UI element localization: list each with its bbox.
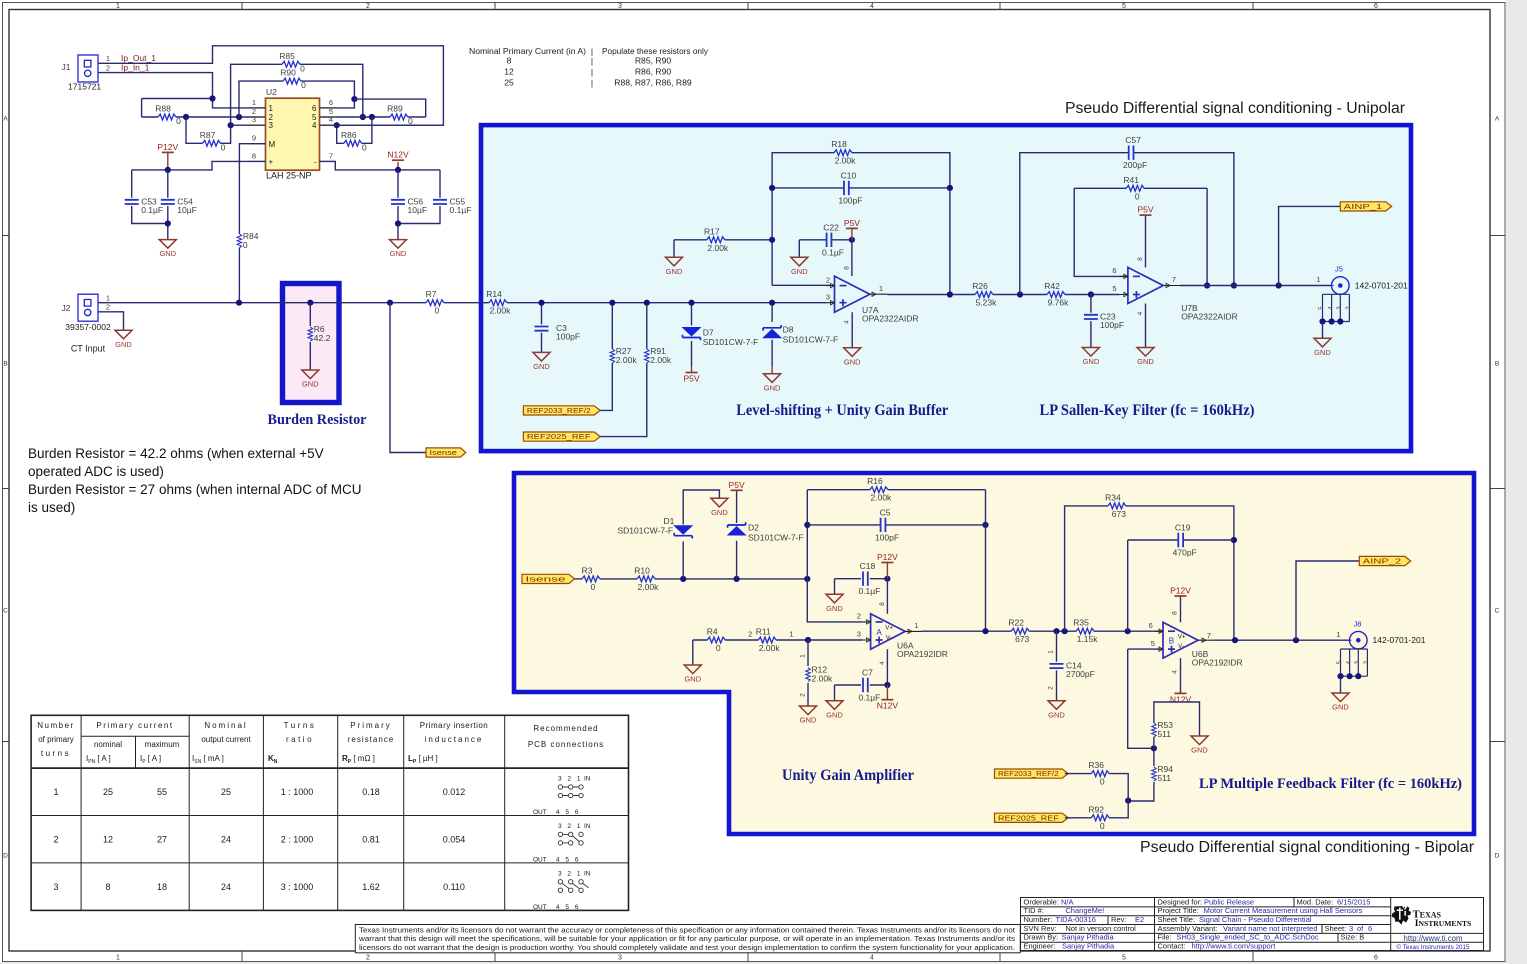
svg-text:8: 8 [879, 602, 886, 606]
capacitor C55 [433, 196, 471, 215]
svg-text:2: 2 [366, 3, 370, 10]
wire C5 row [807, 524, 985, 526]
svg-text:GND: GND [1048, 710, 1065, 719]
junction [884, 576, 890, 582]
svg-text:100pF: 100pF [1100, 320, 1124, 330]
wire net Ip_Out_1 top loop [98, 46, 443, 125]
svg-text:P12V: P12V [877, 552, 898, 562]
svg-text:R92: R92 [1088, 804, 1104, 814]
wire C22 row [799, 239, 852, 241]
svg-text:142-0701-201: 142-0701-201 [1373, 635, 1426, 645]
svg-text:J8: J8 [1353, 620, 1361, 629]
svg-text:1715721: 1715721 [68, 82, 101, 92]
wire U2 pin 6 to R89 right [320, 99, 426, 117]
svg-text:R17: R17 [704, 226, 720, 236]
svg-text:Unity Gain Amplifier: Unity Gain Amplifier [782, 767, 914, 784]
resistor R89 [387, 104, 413, 127]
svg-text:8: 8 [507, 56, 512, 66]
wire J5 shield to ground [1322, 322, 1324, 339]
svg-text:V-: V- [1178, 643, 1184, 650]
svg-text:2.00k: 2.00k [490, 306, 512, 316]
svg-text:INSTRUMENTS: INSTRUMENTS [1415, 919, 1471, 929]
wire burden leg [309, 303, 311, 370]
wire R27 to REF2033 flag [596, 303, 612, 411]
svg-text:SD101CW-7-F: SD101CW-7-F [783, 334, 839, 344]
resistor R26 [972, 281, 997, 308]
svg-text:Populate these resistors only: Populate these resistors only [602, 46, 709, 56]
svg-text:Recommended: Recommended [533, 724, 598, 733]
resistor R36 [1088, 760, 1109, 787]
svg-text:24: 24 [221, 882, 231, 892]
svg-text:B: B [1169, 637, 1174, 646]
svg-text:0.1µF: 0.1µF [858, 586, 880, 596]
svg-text:GND: GND [826, 604, 843, 613]
junction [769, 300, 775, 306]
op-amp U6A [857, 602, 948, 665]
resistor R35 [1073, 618, 1098, 645]
svg-text:J2: J2 [62, 303, 71, 313]
power P12V [1170, 586, 1191, 597]
svg-text:9: 9 [252, 134, 256, 143]
connector J2 [62, 294, 111, 353]
svg-text:2.00k: 2.00k [812, 674, 834, 684]
junction [1062, 628, 1068, 634]
net flag REF2025_REF [995, 813, 1069, 822]
svg-text:25: 25 [504, 78, 514, 88]
svg-text:7: 7 [329, 151, 333, 160]
power N12V [1170, 693, 1192, 704]
wire R34 loop [1065, 506, 1234, 641]
svg-text:OPA2192IDR: OPA2192IDR [1192, 658, 1243, 668]
svg-text:R41: R41 [1123, 175, 1139, 185]
wire R18 feedback loop [772, 153, 950, 295]
wire R86 loop [337, 117, 372, 143]
svg-text:Primary: Primary [350, 721, 392, 730]
svg-text:GND: GND [1332, 703, 1349, 712]
svg-text:Isense: Isense [526, 577, 566, 584]
svg-text:turns: turns [41, 749, 71, 758]
svg-text:3: 3 [826, 292, 830, 301]
unipolar section box [481, 125, 1411, 451]
wire R87 loop to U2 pin 3 [186, 117, 266, 143]
svg-text:10µF: 10µF [408, 205, 428, 215]
net flag REF2033_REF/2 [995, 769, 1069, 778]
svg-text:SD101CW-7-F: SD101CW-7-F [618, 525, 674, 535]
wire to AINP_2 flag [1296, 561, 1359, 640]
svg-text:6: 6 [329, 98, 333, 107]
wire R94 leg [1128, 748, 1154, 801]
svg-text:1: 1 [879, 284, 883, 293]
resistor R22 [1008, 618, 1029, 645]
svg-text:C5: C5 [880, 507, 891, 517]
net flag REF2033_REF/2 [523, 406, 600, 415]
svg-text:A: A [3, 116, 8, 123]
junction [769, 237, 775, 243]
junction [1125, 798, 1131, 804]
wire feedback right vertical [985, 490, 987, 632]
wire to U7A pin 2 [772, 284, 830, 286]
svg-text:3 2 1: 3 2 1 [558, 823, 582, 830]
svg-text:N12V: N12V [1170, 694, 1192, 704]
svg-text:2: 2 [748, 630, 752, 639]
svg-text:C: C [1495, 608, 1500, 615]
junction [209, 95, 215, 101]
svg-text:1: 1 [1336, 630, 1340, 639]
resistor R6 [308, 324, 331, 343]
svg-text:8: 8 [1137, 257, 1144, 261]
svg-text:0: 0 [1100, 821, 1105, 831]
ground [390, 240, 407, 259]
wire P5V stem [851, 228, 853, 239]
svg-text:0: 0 [1135, 191, 1140, 201]
svg-text:R18: R18 [831, 139, 847, 149]
wire D8 leg [771, 303, 773, 366]
svg-text:6: 6 [1112, 266, 1116, 275]
resistor R94 [1152, 764, 1174, 783]
capacitor C22 [822, 222, 844, 257]
wire C19 row [1128, 540, 1234, 631]
junction [395, 220, 401, 226]
connector J5 [1317, 265, 1408, 325]
svg-text:Burden Resistor: Burden Resistor [268, 412, 368, 428]
svg-text:2700pF: 2700pF [1066, 669, 1095, 679]
svg-text:1: 1 [789, 630, 793, 639]
wire to U6A pin 3 [808, 639, 863, 641]
svg-text:673: 673 [1112, 509, 1126, 519]
svg-text:D1: D1 [664, 516, 675, 526]
diode D1 [618, 516, 693, 539]
svg-text:24: 24 [221, 834, 231, 844]
svg-text:0: 0 [243, 240, 248, 250]
svg-text:is used): is used) [28, 500, 75, 515]
bipolar section box [514, 473, 1474, 834]
svg-text:OPA2192IDR: OPA2192IDR [897, 649, 948, 659]
svg-text:27: 27 [157, 834, 167, 844]
ground [533, 352, 550, 371]
svg-text:6: 6 [1374, 3, 1378, 10]
op-amp U7A [826, 266, 919, 324]
wire U6A output row [922, 630, 1163, 632]
svg-text:4: 4 [312, 121, 317, 130]
svg-text:Burden Resistor = 27 ohms (whe: Burden Resistor = 27 ohms (when internal… [28, 482, 362, 497]
svg-text:R11: R11 [756, 627, 771, 637]
svg-text:55: 55 [157, 787, 167, 797]
svg-text:0: 0 [221, 142, 226, 152]
svg-text:Primary current: Primary current [96, 721, 173, 730]
net flag Isense [522, 574, 575, 583]
svg-text:-: - [314, 158, 317, 167]
svg-text:GND: GND [666, 267, 683, 276]
svg-text:4 5 6: 4 5 6 [556, 809, 580, 816]
logo Texas Instruments [1392, 906, 1472, 951]
svg-text:3: 3 [269, 121, 274, 130]
svg-text:IN: IN [584, 776, 591, 783]
svg-text:R10: R10 [634, 565, 650, 575]
junction [1276, 282, 1282, 288]
svg-text:5: 5 [1112, 284, 1116, 293]
svg-text:Texas Instruments and/or its l: Texas Instruments and/or its licensors d… [359, 925, 1015, 934]
svg-text:C57: C57 [1125, 135, 1141, 145]
junction [395, 167, 401, 173]
svg-text:2: 2 [826, 275, 830, 284]
svg-text:GND: GND [826, 710, 843, 719]
resistor R16 [867, 476, 892, 503]
svg-text:3 2 1: 3 2 1 [558, 870, 582, 877]
wire R90 loop [239, 81, 354, 117]
resistor R85 [279, 51, 305, 74]
junction [680, 576, 686, 582]
svg-text:N12V: N12V [877, 701, 899, 711]
svg-text:P5V: P5V [729, 480, 745, 490]
wire U6A V+ supply [886, 579, 888, 614]
svg-text:8: 8 [252, 151, 256, 160]
svg-text:3: 3 [1354, 660, 1361, 664]
svg-text:|: | [591, 56, 593, 66]
resistor R41 [1123, 175, 1144, 202]
svg-text:1: 1 [116, 3, 120, 10]
resistor R84 [237, 231, 259, 250]
note populate table [469, 46, 709, 88]
svg-text:1: 1 [1047, 650, 1054, 654]
svg-text:1: 1 [116, 955, 120, 962]
svg-text:0.1µF: 0.1µF [141, 205, 163, 215]
svg-text:M: M [269, 140, 276, 149]
wire R88 row to U2 pin 2 [142, 99, 266, 118]
svg-text:0.110: 0.110 [443, 882, 465, 892]
net flag REF2025_REF [523, 432, 600, 441]
svg-text:2: 2 [1363, 660, 1370, 664]
svg-text:GND: GND [1083, 357, 1100, 366]
svg-text:4: 4 [1327, 306, 1334, 310]
wire U6A V- supply [886, 649, 888, 685]
svg-text:2.00k: 2.00k [707, 243, 729, 253]
capacitor C19 [1173, 523, 1197, 558]
svg-text:12: 12 [504, 67, 514, 77]
svg-text:R85, R90: R85, R90 [635, 56, 672, 66]
junction [183, 114, 189, 120]
svg-text:3 2 1: 3 2 1 [558, 776, 582, 783]
svg-text:V+: V+ [1178, 633, 1186, 640]
svg-text:maximum: maximum [145, 740, 180, 749]
svg-text:LP Sallen-Key Filter (fc = 160: LP Sallen-Key Filter (fc = 160kHz) [1040, 402, 1255, 419]
diode D8 [763, 325, 838, 345]
svg-text:ratio: ratio [286, 735, 314, 744]
svg-text:GND: GND [1137, 357, 1154, 366]
svg-text:resistance: resistance [348, 735, 394, 744]
capacitor C23 [1084, 311, 1124, 330]
wire D7 p5v stem [691, 366, 693, 373]
svg-text:R85: R85 [279, 51, 295, 61]
svg-text:3: 3 [618, 3, 622, 10]
svg-text:V+: V+ [885, 625, 893, 632]
svg-text:1 : 1000: 1 : 1000 [281, 787, 314, 797]
svg-text:5: 5 [1336, 660, 1343, 664]
op-amp U7B [1112, 257, 1237, 322]
wire to Isense flag [390, 303, 426, 453]
svg-text:GND: GND [302, 380, 319, 389]
wire U7B V+ supply [1145, 215, 1147, 267]
svg-text:0.18: 0.18 [362, 787, 380, 797]
svg-text:P5V: P5V [844, 218, 860, 228]
power P5V [1137, 205, 1153, 216]
resistor R3 [582, 565, 600, 592]
svg-text:OUT: OUT [533, 809, 547, 816]
svg-text:GND: GND [764, 383, 781, 392]
power N12V [877, 700, 899, 711]
ground [711, 498, 728, 517]
svg-text:4 5 6: 4 5 6 [556, 856, 580, 863]
capacitor C3 [535, 323, 581, 342]
junction [307, 300, 313, 306]
power P5V [844, 218, 860, 229]
svg-text:0.1µF: 0.1µF [450, 205, 472, 215]
wire R4 R11 row [693, 640, 808, 665]
svg-text:GND: GND [1314, 348, 1331, 357]
wire C7 row [835, 685, 888, 701]
junction [236, 114, 242, 120]
junction [538, 300, 544, 306]
svg-text:3: 3 [1336, 306, 1343, 310]
svg-text:2: 2 [857, 612, 861, 621]
wire main CT signal row [98, 302, 826, 304]
junction [805, 637, 811, 643]
svg-text:C10: C10 [841, 170, 857, 180]
junction [609, 300, 615, 306]
svg-text:GND: GND [844, 357, 861, 366]
wire U6B output to J8 [1214, 639, 1350, 641]
ground [1082, 348, 1099, 367]
svg-text:2: 2 [1047, 686, 1054, 690]
ground [1332, 693, 1349, 712]
wire U7A output row [887, 294, 1119, 296]
ground [1191, 736, 1208, 755]
svg-text:0: 0 [301, 80, 306, 90]
resistor R10 [634, 565, 659, 592]
junction [1204, 282, 1210, 288]
capacitor C54 [161, 196, 197, 215]
svg-text:0: 0 [591, 582, 596, 592]
junction [236, 300, 242, 306]
svg-text:Primary insertion: Primary insertion [420, 721, 489, 730]
wire C18 row [835, 579, 888, 595]
svg-text:100pF: 100pF [556, 332, 580, 342]
svg-text:V-: V- [886, 634, 892, 641]
svg-text:6: 6 [1149, 621, 1153, 630]
junction [1125, 628, 1131, 634]
capacitor C5 [875, 507, 899, 542]
resistor R14 [486, 289, 511, 316]
svg-text:R87: R87 [200, 130, 216, 140]
svg-text:GND: GND [791, 267, 808, 276]
table transformer options [31, 715, 628, 910]
svg-text:R89: R89 [387, 104, 403, 114]
svg-text:licensors do not warrant that: licensors do not warrant that the design… [359, 943, 1015, 952]
wire U6B V- supply [1180, 658, 1182, 693]
junction [884, 682, 890, 688]
ground [115, 330, 132, 349]
wire U7B output to J5 [1180, 285, 1332, 287]
svg-text:1: 1 [800, 654, 807, 658]
capacitor C10 [838, 170, 862, 205]
resistor R7 [426, 289, 444, 316]
wire U7B V- to ground [1145, 304, 1147, 348]
svg-text:511: 511 [1157, 729, 1171, 739]
svg-text:Burden Resistor = 42.2 ohms (w: Burden Resistor = 42.2 ohms (when extern… [28, 446, 324, 461]
svg-text:2.00k: 2.00k [616, 355, 638, 365]
diode D7 [683, 327, 759, 347]
ground [764, 374, 781, 393]
resistor R34 [1105, 492, 1126, 519]
svg-text:P5V: P5V [1137, 205, 1153, 215]
power N12V [387, 150, 409, 161]
svg-text:J5: J5 [1335, 265, 1343, 274]
svg-text:0: 0 [1100, 777, 1105, 787]
svg-text:CT Input: CT Input [71, 344, 106, 354]
svg-text:C: C [3, 608, 8, 615]
wire U2 pin 5 row [320, 116, 426, 118]
svg-text:D8: D8 [783, 325, 794, 335]
junction [849, 237, 855, 243]
junction [804, 522, 810, 528]
wire bipolar input row [575, 578, 808, 580]
svg-text:2: 2 [1345, 306, 1352, 310]
wire to AINP_1 flag [1279, 206, 1341, 285]
junction [360, 114, 366, 120]
svg-text:R16: R16 [867, 476, 883, 486]
svg-text:5.23k: 5.23k [976, 298, 998, 308]
wire U7A V- to ground [851, 312, 853, 348]
ground [1137, 348, 1154, 367]
svg-text:nominal: nominal [94, 740, 122, 749]
svg-text:1: 1 [106, 293, 110, 302]
diode D2 [728, 522, 804, 542]
wire C14 leads [1056, 631, 1058, 701]
svg-text:A: A [876, 628, 882, 637]
wire C10 row [772, 187, 950, 189]
svg-text:1: 1 [53, 787, 58, 797]
resistor R17 [704, 226, 729, 253]
junction [387, 300, 393, 306]
svg-text:C22: C22 [823, 222, 839, 232]
junction [228, 122, 234, 128]
junction [1151, 745, 1157, 751]
svg-text:4: 4 [1171, 670, 1178, 674]
resistor R87 [200, 130, 226, 153]
wire R88 top link [142, 98, 213, 100]
wire D2 leg to P5V [736, 490, 738, 579]
wire R41 loop to pin 6 [1074, 188, 1207, 285]
svg-text:4: 4 [870, 3, 874, 10]
svg-text:D2: D2 [748, 523, 759, 533]
svg-text:8: 8 [1171, 611, 1178, 615]
svg-text:1: 1 [269, 104, 274, 113]
svg-text:B: B [3, 361, 7, 368]
wire R12 leg [807, 640, 809, 706]
junction [947, 185, 953, 191]
svg-text:3: 3 [618, 955, 622, 962]
svg-text:9.76k: 9.76k [1048, 298, 1070, 308]
wire C23 leads [1090, 295, 1092, 348]
svg-text:P5V: P5V [683, 374, 699, 384]
wire R16 row [807, 489, 985, 491]
title block [1021, 898, 1484, 951]
wire U2 pin 8 supply row [132, 161, 266, 170]
junction [1053, 628, 1059, 634]
junction [734, 576, 740, 582]
junction [769, 185, 775, 191]
svg-text:0: 0 [362, 142, 367, 152]
svg-text:D: D [1495, 853, 1500, 860]
